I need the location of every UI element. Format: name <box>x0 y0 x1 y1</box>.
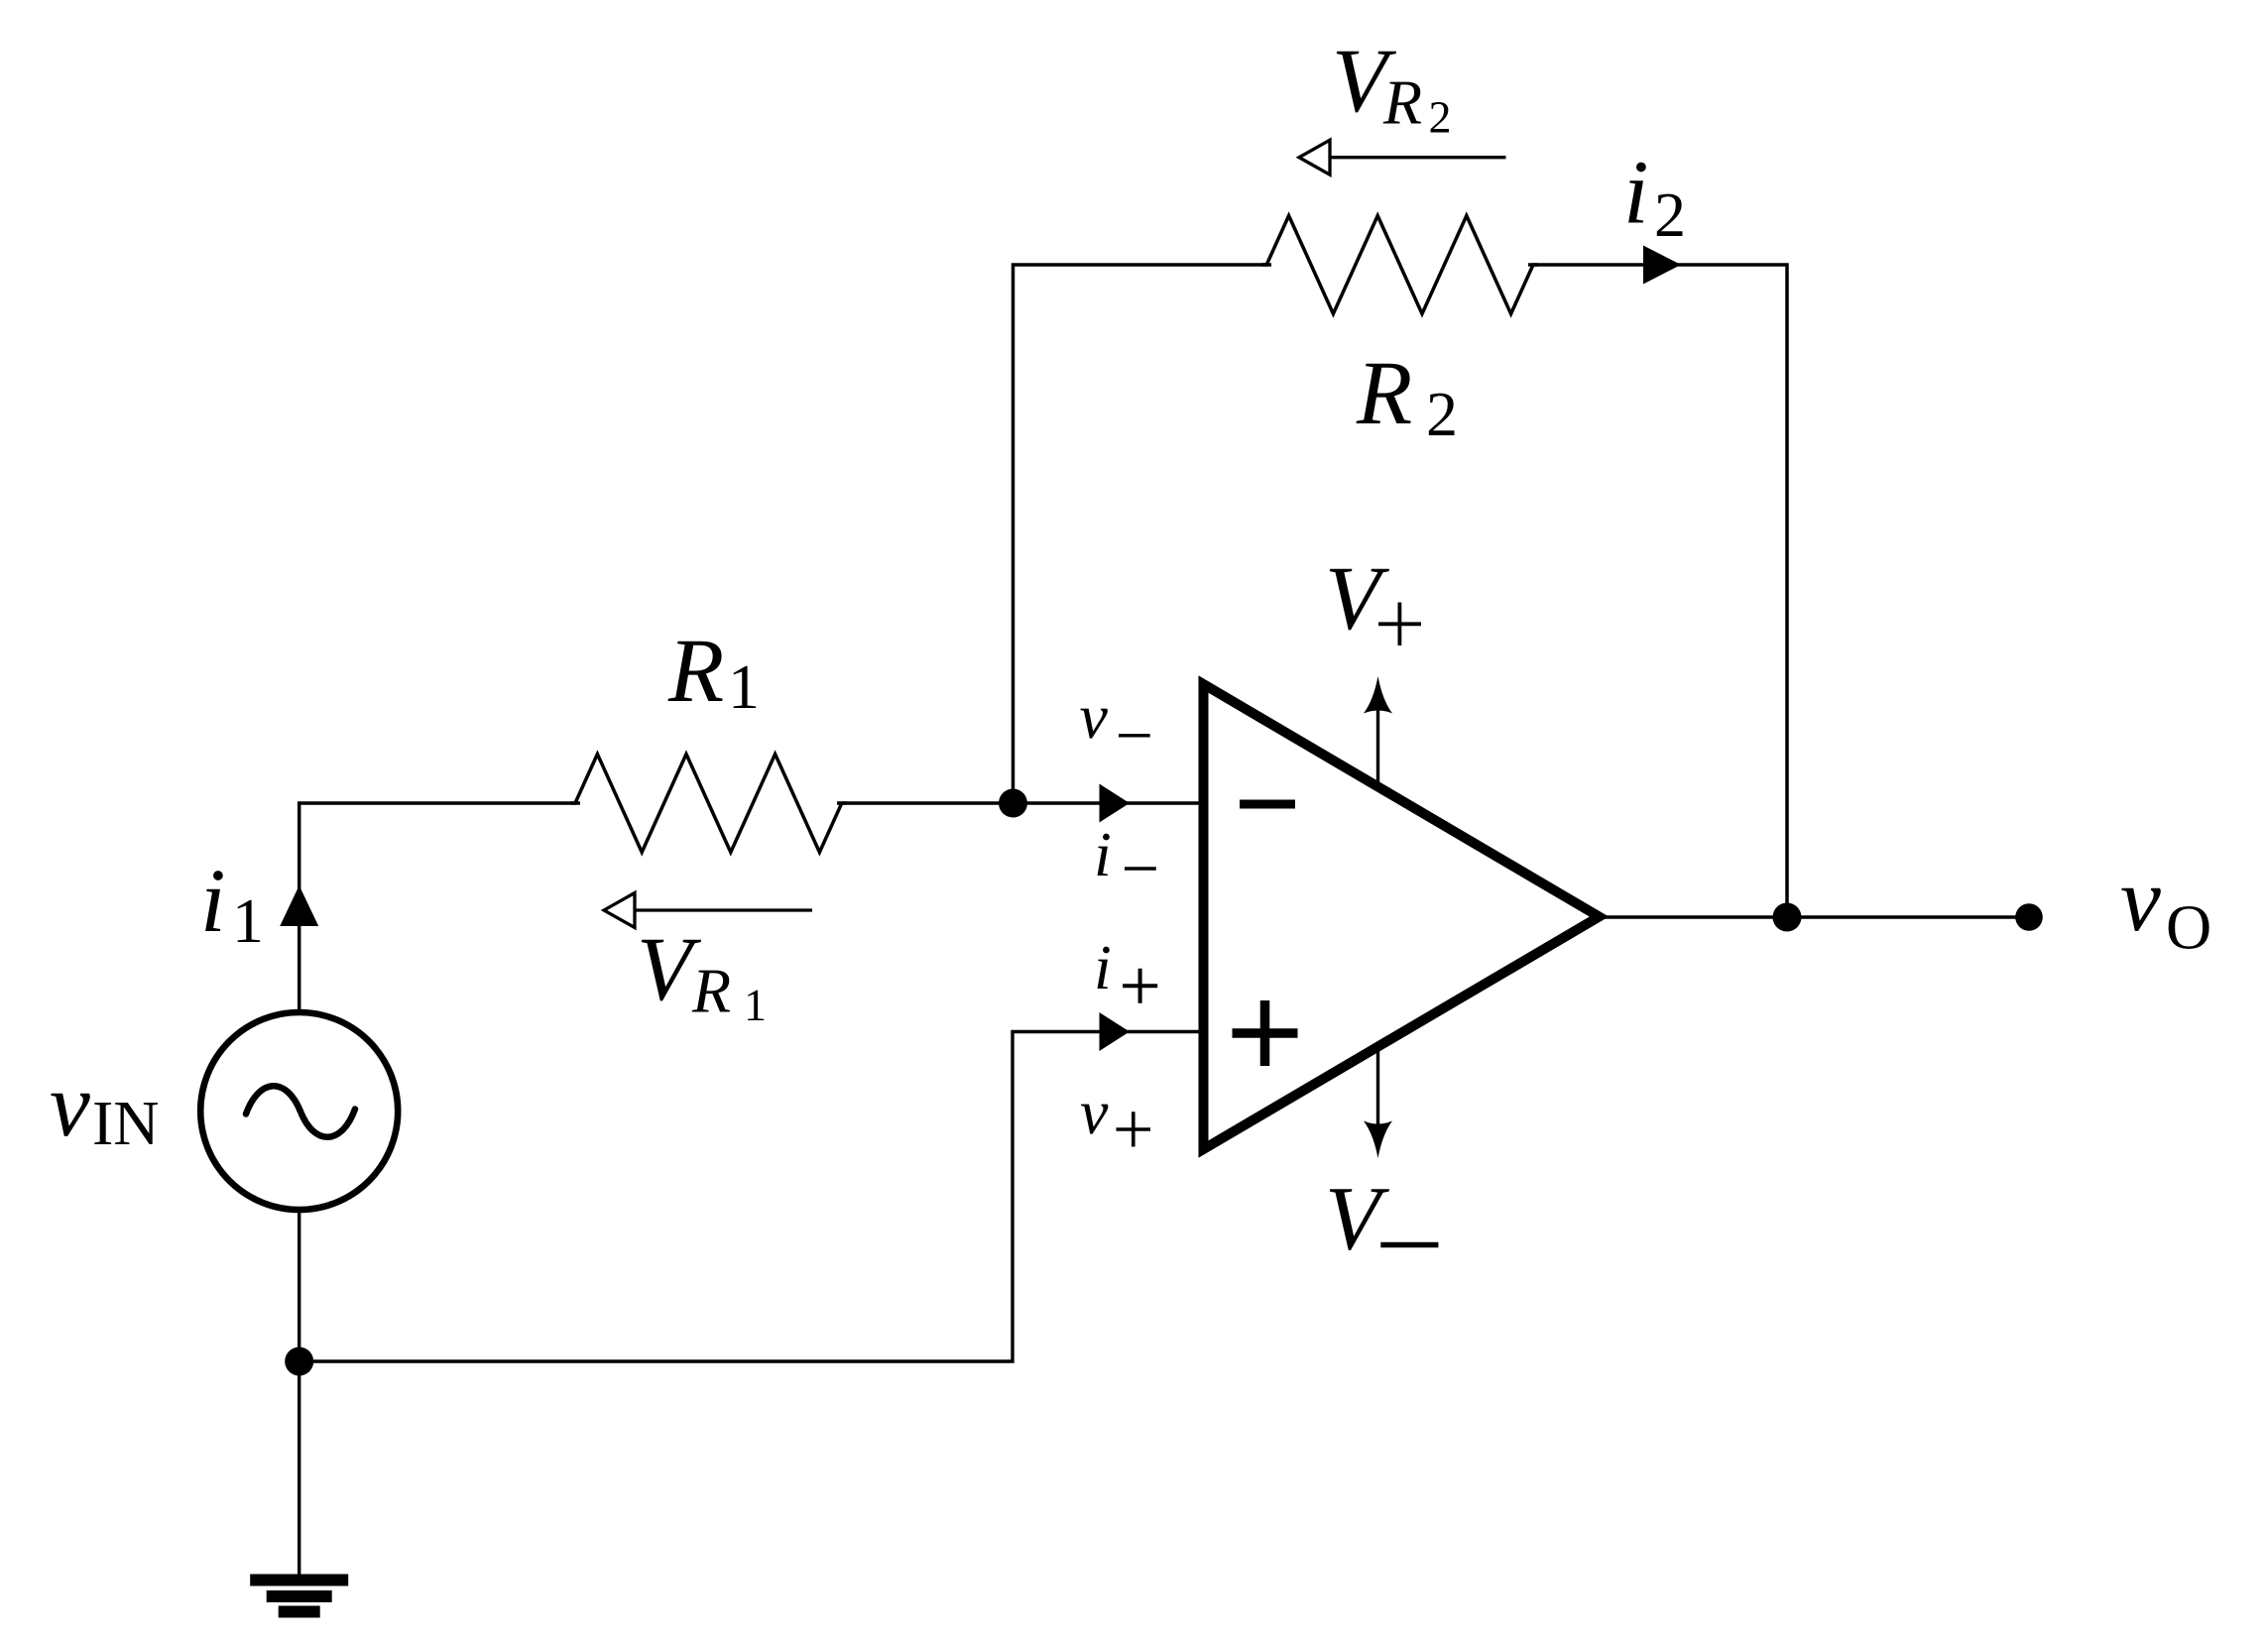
label R1 <box>668 642 723 701</box>
voltage source vIN circle <box>200 1012 398 1210</box>
current arrow i2 on top wire <box>1643 246 1681 285</box>
wire: from source top, up and right to resistor R1 <box>299 803 580 1011</box>
wire: R2 right and down to output node <box>1528 265 1787 917</box>
output node dot <box>1773 903 1802 932</box>
label vIN <box>51 1094 90 1136</box>
label VR2 <box>1337 52 1396 113</box>
label i1 <box>205 871 223 931</box>
wire: below source to ground node <box>298 1211 300 1575</box>
label VR1 <box>642 940 701 1001</box>
label i+ <box>1098 947 1110 989</box>
label i2 <box>1628 163 1646 223</box>
resistor R2 <box>1261 216 1538 314</box>
sine wave inside source <box>246 1086 355 1137</box>
label v- <box>1080 709 1108 739</box>
current arrow i+ on plus input wire <box>1100 1012 1131 1051</box>
voltage arrow VR2 (open head, pointing left) <box>1330 156 1506 159</box>
label i- <box>1098 834 1110 876</box>
node dot at inverting input junction <box>999 789 1027 818</box>
label V+ <box>1330 569 1389 631</box>
plus sign inside op-amp <box>1233 1000 1298 1066</box>
wire: minus input wire from node to op-amp <box>1014 801 1204 804</box>
label V- <box>1330 1189 1389 1250</box>
label R2 <box>1357 364 1411 423</box>
wire: bottom return wire and riser to plus input <box>299 1032 1204 1362</box>
wire: R1 to inverting node <box>837 801 1014 805</box>
label vO <box>2121 888 2161 931</box>
V- supply arrow (down) <box>1376 1048 1379 1148</box>
current arrow i1 on left vertical wire <box>280 885 318 926</box>
output terminal dot <box>2015 903 2043 931</box>
wire: feedback, from inverting node up and right to resistor R2 <box>1014 265 1272 803</box>
resistor R1 <box>570 755 847 853</box>
V+ supply arrow (up) <box>1376 686 1379 786</box>
label v+ <box>1081 1105 1109 1134</box>
ground node junction dot <box>285 1348 313 1376</box>
wire: output wire <box>1600 915 2029 918</box>
minus sign inside op-amp <box>1240 800 1295 809</box>
current arrow i- on minus input wire <box>1100 784 1131 823</box>
op-amp U1 triangle <box>1204 684 1600 1149</box>
ground symbol <box>250 1575 348 1586</box>
voltage arrow VR1 (open head, pointing left) <box>635 908 812 911</box>
